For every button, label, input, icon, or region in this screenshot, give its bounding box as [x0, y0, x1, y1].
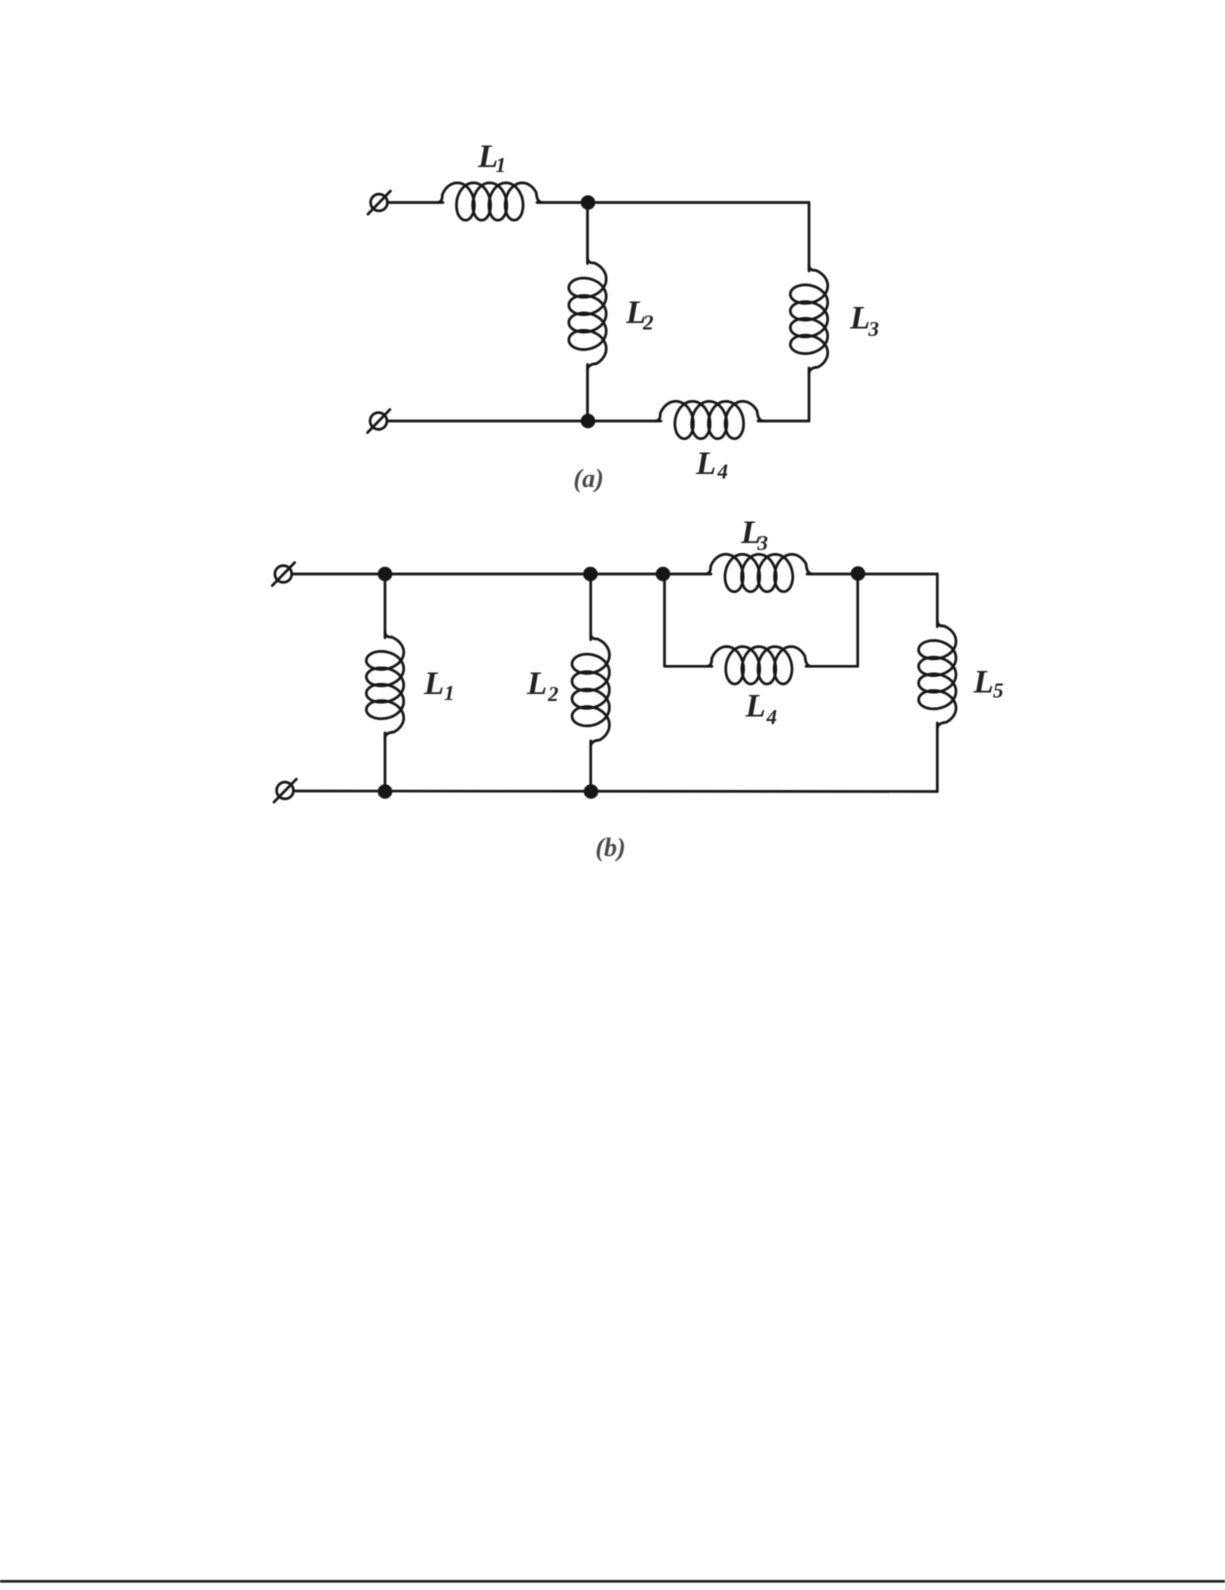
- node: (a) junction of L2 with bottom rail (bottom dot): [581, 414, 596, 429]
- svg-text:L: L: [423, 666, 444, 702]
- svg-text:1: 1: [444, 681, 455, 705]
- terminal: circuit (b) bottom-left input port: [277, 782, 294, 799]
- terminal: circuit (a) top-left input port: [371, 194, 388, 211]
- wire: (a) right side from L3 to bottom-right corner: [808, 368, 811, 421]
- inductor L5 (circuit b, right branch, vertical coil): [919, 621, 956, 729]
- wire: (b) left vertical of L4 branch: [665, 574, 713, 666]
- wire: (a) top rail from L1 to top-right corner: [537, 201, 809, 204]
- node: (b) bottom rail junction with L2: [584, 784, 599, 799]
- svg-text:3: 3: [757, 531, 769, 555]
- wire: (b) L2 branch vertical bottom segment: [589, 741, 592, 792]
- wire: (b) L1 branch vertical bottom segment: [384, 733, 387, 792]
- svg-text:5: 5: [993, 679, 1004, 703]
- svg-text:L: L: [526, 666, 547, 702]
- wire: (b) L1 branch vertical top segment: [384, 574, 387, 638]
- wire: (a) bottom rail from terminal to L4: [388, 420, 662, 423]
- terminal: circuit (b) top-left input port: [275, 566, 292, 583]
- wire: (b) bottom rail from terminal to right corner: [294, 790, 938, 793]
- svg-text:L: L: [849, 301, 870, 337]
- wire: (a) bottom rail right segment (corner to L4): [758, 420, 809, 423]
- svg-text:4: 4: [766, 705, 778, 729]
- inductor L3 (circuit b, upper parallel branch, horizontal coil): [705, 554, 812, 592]
- wire: (b) right vertical of L4 branch up to right junction: [806, 574, 858, 666]
- inductor L2 (circuit b, shunt branch, vertical coil): [572, 634, 610, 747]
- wire: (b) L2 branch vertical top segment: [589, 574, 592, 640]
- wire: (a) vertical from L2 down to bottom junction: [586, 365, 589, 422]
- node: (b) top rail junction with L1: [378, 567, 393, 582]
- svg-text:2: 2: [642, 311, 654, 335]
- wire: (a) vertical from top junction down to L2: [586, 203, 589, 264]
- inductor L3 (circuit a, right branch, vertical coil): [790, 265, 828, 374]
- page footer rule at bottom of scanned page: [0, 1580, 1225, 1583]
- inductor L4 (circuit a, bottom rail, horizontal coil): [655, 401, 764, 439]
- svg-text:L: L: [745, 689, 766, 725]
- svg-text:3: 3: [868, 317, 880, 341]
- wire: (a) top rail from input terminal to L1: [388, 201, 443, 204]
- svg-text:(a): (a): [573, 464, 603, 493]
- wire: (b) top rail from terminal through junctions to L3: [292, 573, 711, 576]
- wire: (b) top rail from L3 to top-right corner: [807, 573, 937, 576]
- node: (b) left junction of L3/L4 parallel pair: [656, 567, 671, 582]
- svg-text:L: L: [973, 665, 994, 701]
- wire: (b) right side down from corner to L5: [936, 574, 939, 627]
- svg-text:1: 1: [496, 153, 507, 177]
- node: (a) junction of L1, L2, L3 (top dot): [581, 195, 596, 210]
- inductor L1 (circuit a, series, horizontal coil): [437, 183, 543, 220]
- wire: (b) right side from L5 to bottom rail corner: [936, 723, 939, 792]
- inductor L1 (circuit b, shunt branch, vertical coil): [366, 632, 404, 739]
- node: (b) bottom rail junction with L1: [378, 784, 393, 799]
- svg-text:4: 4: [717, 460, 729, 484]
- terminal: circuit (a) bottom-left input port: [370, 413, 387, 430]
- svg-text:(b): (b): [595, 833, 625, 862]
- node: (b) right junction of L3/L4 parallel pair: [851, 566, 866, 581]
- inductor L4 (circuit b, lower parallel branch, horizontal coil): [706, 647, 811, 685]
- svg-text:2: 2: [547, 682, 559, 706]
- node: (b) top rail junction with L2: [583, 567, 598, 582]
- svg-text:L: L: [695, 446, 716, 482]
- wire: (a) right side down from corner to L3: [808, 203, 811, 272]
- inductor L2 (circuit a, shunt branch, vertical coil): [569, 258, 606, 370]
